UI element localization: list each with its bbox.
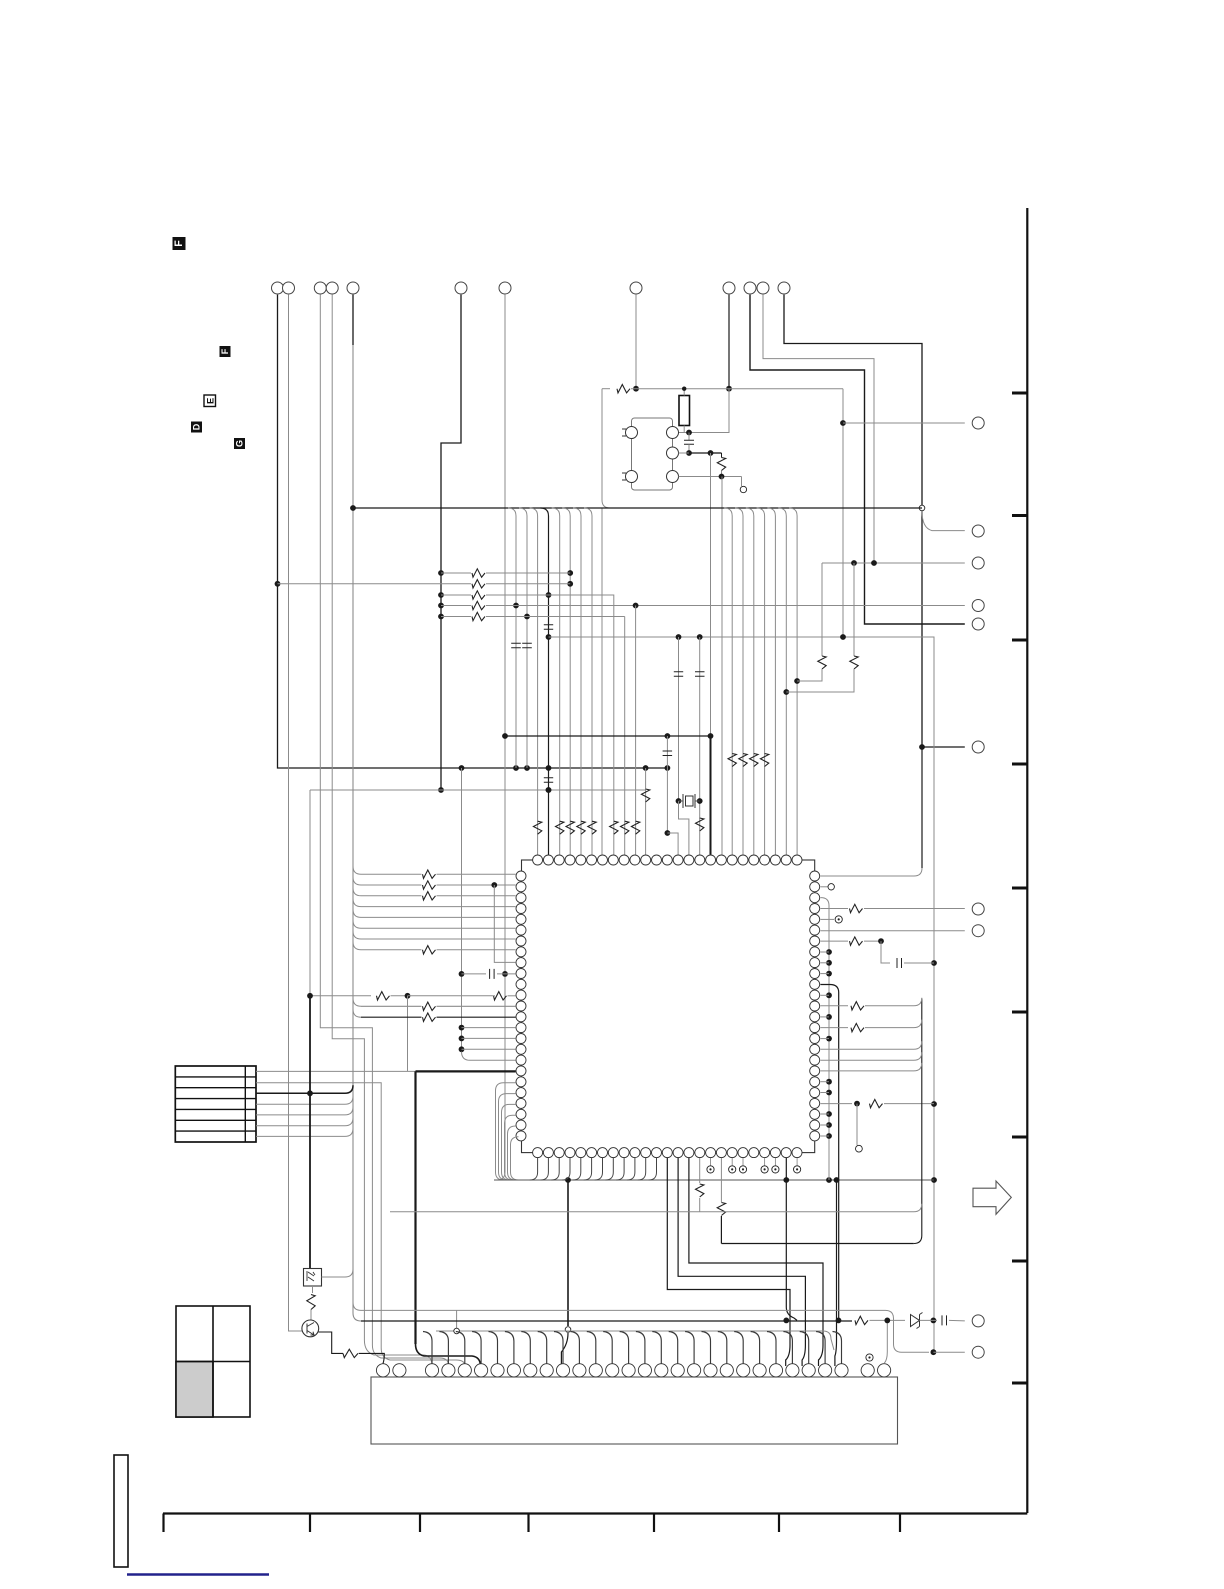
wire to connector pin1 (359, 1353, 385, 1363)
junction (878, 938, 884, 944)
resistor row 3 (472, 591, 485, 599)
wire c6 via x441 (441, 295, 461, 790)
resistor Q1 out (343, 1349, 358, 1357)
resistor above pin x635 (631, 821, 639, 834)
wire cap top stub (688, 433, 690, 441)
corner (309, 789, 311, 791)
terminal top x750 (744, 282, 756, 294)
junction (826, 1079, 832, 1085)
wire connector pin stub (685, 1332, 694, 1364)
terminal top x277 (272, 282, 284, 294)
resistor b16 (696, 1184, 704, 1197)
resistor row (423, 870, 436, 878)
junction (643, 765, 649, 771)
resistor above pin x592 (588, 821, 596, 834)
connector fan bus y1331 (436, 1330, 823, 1332)
stub (764, 1158, 766, 1166)
resistor x854 (850, 656, 858, 669)
resistor above pin x559 (556, 821, 564, 834)
wire row left (361, 1016, 422, 1018)
resistor x645 (641, 789, 649, 802)
junction (438, 603, 444, 609)
wire x581 to pin t5 (580, 516, 582, 855)
junction (834, 1177, 840, 1183)
wire x797 to pin t25 (796, 516, 798, 855)
bus fan entry (584, 508, 592, 516)
wire pad bottom (679, 476, 742, 478)
wire to terminal y1352 (933, 1351, 964, 1353)
wire x822 upper (821, 563, 823, 656)
junction (665, 765, 671, 771)
wire x678 (678, 637, 680, 801)
junction (931, 1101, 937, 1107)
wire connector pin stub (456, 1332, 465, 1364)
wire p18 entry (820, 1052, 921, 1060)
resistor R osc2 (717, 458, 725, 471)
terminal right y1320 (972, 1315, 984, 1327)
wire c9 to resonator pad (679, 389, 730, 433)
ruler tick (419, 1514, 421, 1533)
wire pin to GND bus (508, 1126, 516, 1180)
wire row right (437, 1016, 516, 1018)
wire rail stub to pin (820, 951, 829, 953)
stub (721, 471, 723, 477)
wire row left (361, 884, 422, 886)
terminal right y930 (972, 925, 984, 937)
wire connector pin stub (489, 1332, 498, 1364)
wire osc black (689, 452, 711, 454)
wire cap to pin p10 (497, 973, 516, 975)
bus fan entry (562, 508, 570, 516)
wire x753 to pin t21 (753, 516, 755, 855)
resistor row 2 (472, 580, 485, 588)
bus fan entry (573, 508, 581, 516)
wire c3 to connector pin4 (320, 295, 448, 1366)
bus fan entry (757, 508, 765, 516)
ruler tick (309, 1514, 311, 1533)
connector CN1 row divider (175, 1108, 256, 1110)
resistor row (423, 946, 436, 954)
wire row right (437, 1005, 516, 1007)
resistor p22 (870, 1099, 883, 1107)
wire connector pin stub (669, 1332, 678, 1364)
capacitor x527 (522, 643, 532, 648)
wire c9 (728, 295, 730, 389)
terminal top x320 (314, 282, 326, 294)
wire net y1310 (361, 1310, 929, 1352)
terminal top x461 (455, 282, 467, 294)
wire rail stub to pin (820, 994, 829, 996)
wire y1321 (920, 1319, 938, 1321)
wire resistor row 4 left (441, 605, 471, 607)
connector CN2 pin circles (376, 1364, 389, 1377)
bus entry to IC row (353, 888, 361, 896)
page border bottom ruler (163, 1512, 1027, 1514)
wire resistor row 1 right (486, 572, 570, 574)
bus entry to IC row (353, 942, 361, 950)
bus x922 right side (914, 999, 922, 1244)
wire x710 upper (710, 453, 712, 736)
wire rail to pin (462, 1048, 516, 1050)
wire ring to terminal y531 (922, 511, 965, 531)
ruler tick (1012, 887, 1027, 890)
junction (871, 560, 877, 566)
wire x854 upper (853, 563, 855, 656)
junction (708, 733, 714, 739)
wire bold x415 down (414, 1071, 416, 1344)
junction (459, 1036, 465, 1042)
resistor on wire x764 (760, 754, 768, 767)
wire IC row (361, 906, 516, 908)
wire c11 (763, 295, 874, 563)
capacitor osc C1 (684, 440, 694, 444)
junction (682, 387, 686, 391)
wire b24 drop x786 (786, 1158, 797, 1320)
wire pulldown (856, 1104, 858, 1145)
wire rail stub to pin (820, 973, 829, 975)
junction (836, 1318, 842, 1324)
wire x786 to pin t24 (785, 516, 787, 855)
wire c10 to terminal y624 (750, 295, 965, 624)
bottom-left margin bar (114, 1455, 128, 1567)
open junction (454, 1328, 460, 1334)
wire CN1 row (256, 1114, 345, 1116)
terminal top x729 (723, 282, 735, 294)
junction (546, 592, 552, 598)
wire connector pin stub (472, 1332, 481, 1364)
open circle osc (740, 486, 746, 492)
resistor row (423, 881, 436, 889)
wire b18 stub (720, 1158, 722, 1202)
resistor row 5 (472, 612, 485, 620)
junction (840, 634, 846, 640)
wire y1321 mid (870, 1319, 906, 1321)
junction (826, 1177, 832, 1183)
resistor above pin x581 (577, 821, 585, 834)
wire bottom pin to GND bus (605, 1158, 613, 1180)
stub (721, 453, 723, 458)
wire bottom pin to GND bus (638, 1158, 646, 1180)
bus entry to IC row (353, 877, 361, 885)
capacitor x548 upper (544, 625, 553, 629)
wire osc left (602, 388, 610, 390)
arrow symbol (973, 1181, 1011, 1214)
junction (502, 733, 508, 739)
resistor p7 (850, 937, 863, 945)
junction (565, 1177, 571, 1183)
wire x527 (526, 516, 528, 768)
test point (729, 1166, 736, 1173)
wire p5 stub (820, 918, 834, 920)
junction (438, 787, 444, 793)
rail x838 from p11 (820, 985, 838, 1321)
wire bold to pin p19 (416, 1070, 516, 1072)
wire resistor row 3 right (486, 594, 549, 596)
svg-text:G: G (235, 440, 245, 447)
junction (459, 765, 465, 771)
junction (719, 474, 725, 480)
wire bottom pin to GND bus (595, 1158, 603, 1180)
test point (739, 1166, 746, 1173)
bus fan entry (530, 508, 538, 516)
wire rail corner to pin p18 (462, 1052, 516, 1061)
bus fan entry (789, 508, 797, 516)
wire p6 to terminal (820, 930, 964, 932)
resistor above pin x613 (610, 821, 618, 834)
wire row right (437, 949, 516, 951)
wire c8 to oscillator (635, 295, 637, 389)
wire c5 top black (352, 295, 354, 345)
resonator module outline (632, 418, 673, 490)
wire bottom pin to GND bus (530, 1158, 538, 1180)
connector CN1 row divider (175, 1076, 256, 1078)
ruler tick (778, 1514, 780, 1533)
wire CN1 row3 black (256, 1092, 345, 1094)
wire x699 to pin t16 (699, 637, 701, 855)
wire bottom pin to GND bus (551, 1158, 559, 1180)
page border right ruler (1026, 208, 1028, 1513)
wire row left (361, 1005, 422, 1007)
wire p7 right (864, 940, 881, 942)
wire x635 to pin t10 (635, 606, 637, 855)
wire rail to pin (462, 1037, 516, 1039)
wire bottom pin to GND bus (616, 1158, 624, 1180)
resistor R osc (617, 385, 630, 393)
wire GND to connector pin10 (561, 1333, 568, 1366)
junction (783, 1177, 789, 1183)
wire row right (437, 884, 516, 886)
footer underline (127, 1573, 269, 1575)
junction (697, 634, 703, 640)
terminal right y423 (972, 417, 984, 429)
wire b16 stub (699, 1158, 701, 1183)
wire rail to pin (462, 1027, 516, 1029)
junction (931, 1318, 937, 1324)
wire p19 entry (820, 1063, 921, 1071)
bus fan entry (552, 508, 560, 516)
IC U1 left pin column (516, 871, 526, 881)
transistor Q1 (302, 1320, 319, 1337)
wire net y563 (822, 562, 965, 564)
bus fan entry (541, 508, 549, 516)
wire to terminal y1321 (949, 1319, 965, 1322)
ruler tick (1012, 392, 1027, 395)
bus fan entry (746, 508, 754, 516)
IC U1 right pin column (810, 871, 820, 881)
wire p13 (820, 1005, 848, 1007)
wire net y1243 (721, 1243, 913, 1245)
junction (783, 689, 789, 695)
connector CN1 row divider (175, 1119, 256, 1121)
wire x592 to pin t6 (591, 516, 593, 855)
junction (491, 882, 497, 888)
junction (794, 678, 800, 684)
junction (826, 1111, 832, 1117)
wire p22 (820, 1103, 852, 1105)
wire c7 vertical x505 (497, 295, 505, 1180)
connector CN1 column divider (244, 1066, 246, 1142)
capacitor x699 (695, 672, 705, 676)
wire x710 bold to pin t17 (710, 736, 712, 855)
terminal right y909 (972, 903, 984, 915)
bus entry to connector row (345, 1118, 353, 1126)
wire IC row (361, 927, 516, 929)
pad tick marks (622, 429, 626, 480)
wire CN1 row (256, 1103, 345, 1105)
stub (710, 1158, 712, 1166)
wire p22 to rail (884, 1103, 934, 1105)
wire row left (361, 873, 422, 875)
wire pin30 (884, 1320, 887, 1363)
wire connector pin stub (652, 1332, 661, 1364)
resonator pad (626, 471, 638, 483)
wire cap left (462, 973, 487, 975)
junction (826, 971, 832, 977)
junction (459, 971, 465, 977)
junction (546, 634, 552, 640)
capacitor x548 (544, 778, 553, 782)
bus fan entry (519, 508, 527, 516)
junction (546, 787, 552, 793)
wire p15 entry (865, 1020, 922, 1028)
junction (676, 798, 682, 804)
junction (438, 592, 444, 598)
wire resistor row 4 right (486, 605, 965, 607)
wire connector pin stub (538, 1332, 547, 1364)
wire rail stub to pin (820, 1038, 829, 1040)
junction (502, 971, 508, 977)
wire bold to connector pin6 (416, 1344, 481, 1366)
junction (546, 765, 552, 771)
wire row5 to pin t9 (624, 617, 626, 855)
ruler tick (1012, 514, 1027, 517)
wire x570 to pin t4 (569, 516, 571, 855)
wire bottom pin to GND bus (584, 1158, 592, 1180)
wire p4 (820, 908, 848, 910)
wire pad mid to cap (679, 452, 690, 454)
test point (794, 1166, 801, 1173)
wire cap to rail x934 (904, 962, 934, 964)
wire x843 (842, 389, 844, 637)
wire p17 entry (820, 1041, 921, 1049)
checkerboard mark (176, 1306, 250, 1417)
wire p15 (820, 1027, 848, 1029)
resistor p4 (850, 904, 863, 912)
wire connector pin stub (505, 1332, 514, 1364)
wire opto to R (312, 1286, 314, 1293)
junction (567, 581, 573, 587)
wire to cap (881, 941, 890, 963)
wire bottom pin to GND bus (649, 1158, 657, 1180)
wire net y736 (505, 735, 711, 737)
wire IC row (361, 938, 516, 940)
wire rail stub to pin (820, 1124, 829, 1126)
wire row p12 left (310, 995, 371, 997)
junction (350, 505, 356, 511)
bus horizontal y508 (353, 507, 922, 509)
wire resistor row 2 left (278, 583, 472, 585)
wire connector pin stub (816, 1332, 825, 1364)
wire x678 jog to pin t15 (679, 801, 689, 855)
connector CN1 row divider (175, 1098, 256, 1100)
junction (438, 614, 444, 620)
terminal right y624 (972, 618, 984, 630)
wire osc horizontal (631, 388, 843, 390)
wire opto out (322, 1276, 346, 1278)
open circle p22 (856, 1145, 863, 1152)
resistor opto (307, 1295, 315, 1310)
resistor row p12 b (494, 992, 507, 1000)
junction (546, 787, 552, 793)
wire connector pin stub (620, 1332, 629, 1364)
ruler tick (899, 1514, 901, 1533)
wire x407 down to row1 (407, 996, 409, 1072)
junction (567, 570, 573, 576)
wire connector pin stub (783, 1332, 792, 1364)
wire x602 to IC pin t7 (601, 508, 603, 855)
junction (307, 1090, 313, 1096)
ruler tick (1012, 1136, 1027, 1139)
wire c12 down x922 (784, 295, 922, 747)
resistor net y1321 (855, 1316, 868, 1324)
terminal top x288 (283, 282, 295, 294)
wire p7 (820, 940, 848, 942)
wire connector pin stub (734, 1332, 743, 1364)
wire x732 to pin t19 (731, 516, 733, 855)
terminal top x784 (778, 282, 790, 294)
wire rail stub to pin (820, 1135, 829, 1137)
junction (633, 603, 639, 609)
test point pin29 (866, 1354, 873, 1361)
capacitor x667 (663, 751, 673, 756)
terminal right y747 (972, 741, 984, 753)
terminal top x636 (630, 282, 642, 294)
stub (774, 1158, 776, 1166)
svg-text:E: E (204, 398, 215, 404)
wire rail stub to pin (820, 1113, 829, 1115)
wire resistor row 5 right (486, 616, 625, 618)
junction (665, 830, 671, 836)
wire x922 lower (921, 747, 923, 868)
wire x922 into IC pin right p1 (820, 868, 922, 876)
terminal right y563 (972, 557, 984, 569)
wire row right (437, 895, 516, 897)
resistor row (423, 892, 436, 900)
bus entry to IC row (353, 909, 361, 917)
resistor above pin x624 (621, 821, 629, 834)
junction (633, 386, 639, 392)
wire x537 to pin t1 (537, 516, 539, 855)
wire b16 lower (699, 1198, 701, 1212)
bus fan entry (767, 508, 775, 516)
wire connector pin stub (603, 1332, 612, 1364)
wire R to Q1 (310, 1310, 312, 1321)
wire rail stub to pin (820, 1092, 829, 1094)
wire connector pin stub (718, 1332, 727, 1364)
wire crystal top lead (683, 389, 685, 396)
test point (707, 1166, 714, 1173)
test point (761, 1166, 768, 1173)
wire b18 lower (720, 1216, 722, 1244)
wire connector pin stub (800, 1332, 809, 1364)
wire row p12 right (508, 995, 516, 997)
terminal right y605 (972, 600, 984, 612)
resistor above pin x570 (566, 821, 574, 834)
junction (686, 430, 692, 436)
junction (826, 960, 832, 966)
bus entry to connector row (345, 1128, 353, 1136)
resistor above pin x537 (533, 821, 541, 834)
